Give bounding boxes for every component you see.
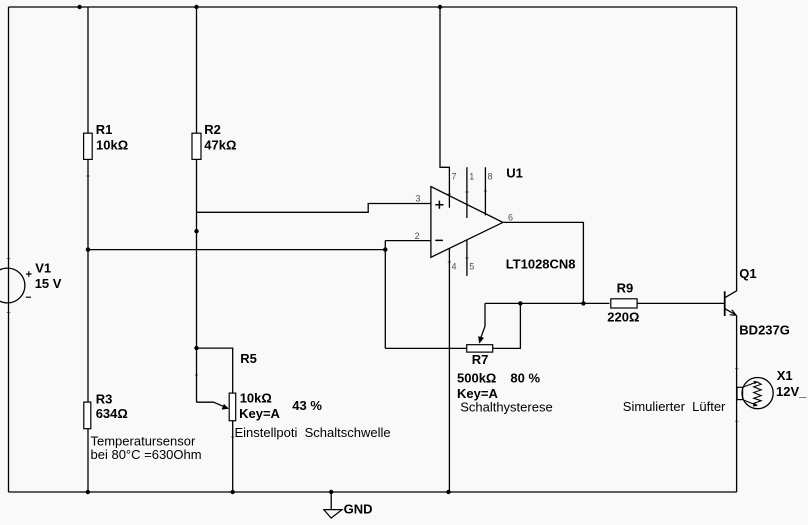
svg-text:Simulierter Lüfter: Simulierter Lüfter	[623, 399, 726, 414]
svg-text:R2: R2	[204, 122, 221, 137]
svg-text:R5: R5	[240, 351, 257, 366]
svg-text:500kΩ: 500kΩ	[457, 371, 496, 386]
svg-text:6: 6	[508, 212, 513, 222]
svg-text:LT1028CN8: LT1028CN8	[506, 257, 576, 272]
svg-text:GND: GND	[344, 501, 373, 516]
svg-text:7: 7	[452, 171, 457, 181]
svg-text:Key=A: Key=A	[239, 406, 280, 421]
svg-text:4: 4	[452, 261, 457, 271]
svg-text:bei 80°C =630Ohm: bei 80°C =630Ohm	[91, 447, 202, 462]
svg-text:R9: R9	[617, 280, 634, 295]
svg-text:BD237G: BD237G	[739, 323, 790, 338]
svg-text:R7: R7	[472, 352, 489, 367]
svg-text:X1: X1	[777, 368, 793, 383]
svg-text:1: 1	[469, 171, 474, 181]
svg-text:10kΩ: 10kΩ	[96, 137, 128, 152]
svg-text:12V_: 12V_	[776, 384, 807, 399]
svg-text:47kΩ: 47kΩ	[204, 137, 236, 152]
svg-text:43 %: 43 %	[292, 398, 322, 413]
svg-text:R1: R1	[96, 122, 113, 137]
svg-text:5: 5	[469, 261, 474, 271]
svg-text:80 %: 80 %	[510, 371, 540, 386]
svg-text:3: 3	[416, 194, 421, 204]
svg-text:Einstellpoti Schaltschwelle: Einstellpoti Schaltschwelle	[235, 425, 391, 440]
svg-text:10kΩ: 10kΩ	[240, 390, 272, 405]
svg-text:634Ω: 634Ω	[96, 406, 128, 421]
svg-text:V1: V1	[35, 261, 51, 276]
svg-text:15 V: 15 V	[35, 276, 62, 291]
svg-text:8: 8	[488, 171, 493, 181]
svg-text:2: 2	[415, 231, 420, 241]
svg-text:220Ω: 220Ω	[607, 310, 639, 325]
svg-text:Schalthysterese: Schalthysterese	[460, 399, 553, 414]
svg-text:R3: R3	[96, 392, 113, 407]
svg-text:U1: U1	[506, 166, 523, 181]
svg-text:Q1: Q1	[739, 266, 756, 281]
